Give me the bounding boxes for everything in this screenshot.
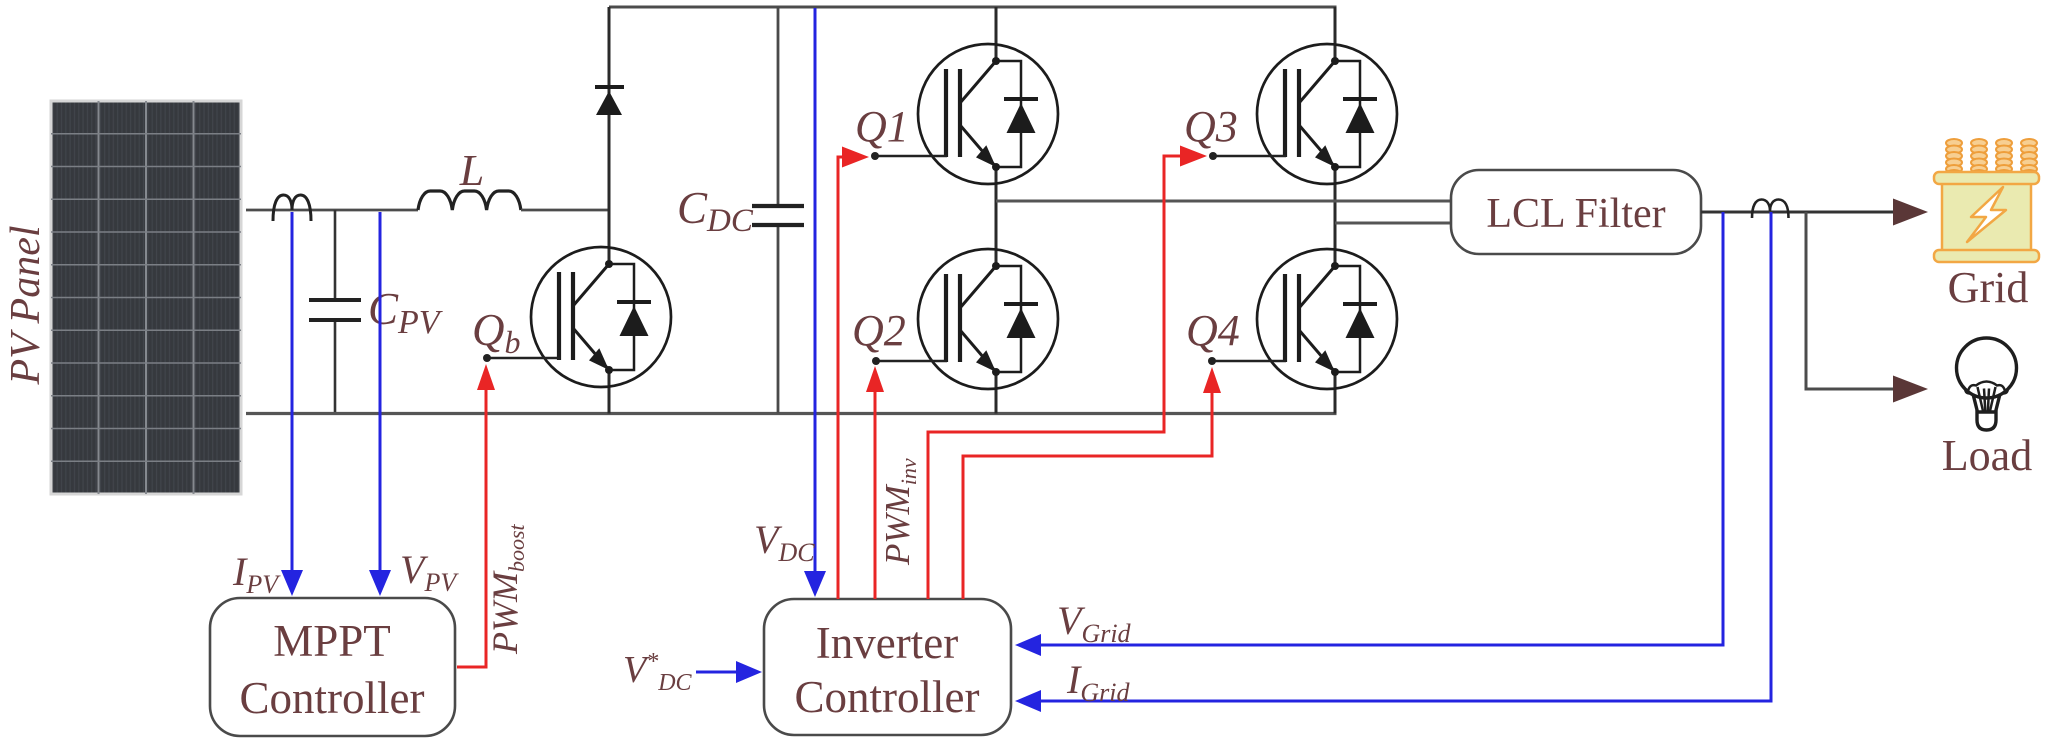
svg-text:MPPT: MPPT: [273, 616, 391, 666]
inductor L: [418, 191, 521, 210]
red gate wire Q2: [874, 390, 877, 599]
H-bridge right leg: [1334, 7, 1337, 61]
svg-text:Inverter: Inverter: [816, 618, 958, 668]
svg-text:Q3: Q3: [1184, 102, 1238, 151]
capacitor C_PV: [309, 210, 361, 413]
wire inductor to boost node: [521, 209, 611, 212]
red PWM_boost wire: [457, 380, 486, 667]
svg-text:Q2: Q2: [852, 306, 906, 355]
red gate wire Q4: [963, 392, 1212, 599]
blue sense I_PV: [291, 212, 294, 572]
gate lead Q2: [876, 360, 947, 363]
blue sense V_DC: [814, 8, 817, 573]
IGBT Qb: [531, 247, 671, 387]
svg-text:LCL Filter: LCL Filter: [1486, 191, 1665, 237]
red gate wire Q1: [838, 157, 844, 599]
wire PV+ to inductor: [246, 209, 418, 212]
arrow to grid: [1893, 199, 1928, 226]
blue sense V_PV: [379, 212, 382, 572]
current sensor CT1 on PV+: [273, 195, 311, 221]
inverter controller box: [764, 599, 1011, 735]
svg-text:Controller: Controller: [240, 673, 425, 723]
boost diode D1: [595, 7, 624, 210]
svg-text:Q4: Q4: [1186, 306, 1240, 355]
bottom rail: [246, 412, 1337, 415]
IGBT Q3: [1257, 44, 1397, 184]
svg-text:Grid: Grid: [1948, 263, 2029, 312]
current sensor CT2 on grid wire: [1752, 200, 1789, 219]
top rail DC+: [609, 6, 1337, 9]
wire branch to load: [1806, 212, 1896, 389]
PV panel: [51, 101, 241, 494]
IGBT Q2: [918, 249, 1058, 389]
H-bridge left leg: [995, 7, 998, 61]
IGBT Q1: [918, 44, 1058, 184]
svg-text:L: L: [459, 146, 484, 195]
load icon (bulb): [1957, 338, 2017, 430]
MPPT controller box: [210, 598, 455, 736]
IGBT Q4: [1257, 249, 1397, 389]
LCL Filter box: [1451, 170, 1701, 254]
blue ref V*_DC: [696, 671, 740, 674]
gate lead Q3: [1213, 155, 1286, 158]
wire LCL to grid: [1701, 211, 1896, 214]
svg-text:PV Panel: PV Panel: [3, 225, 49, 385]
svg-text:Controller: Controller: [795, 672, 980, 722]
grid icon (transformer): [1934, 139, 2039, 262]
capacitor C_DC: [752, 7, 804, 414]
wire node to Qb collector: [608, 210, 611, 264]
arrow to load: [1893, 376, 1928, 403]
svg-text:Load: Load: [1942, 431, 2032, 480]
wire bridge midpoint A to LCL: [996, 200, 1452, 203]
wire Qb emitter to bottom rail: [608, 370, 611, 414]
blue sense V_Grid: [1041, 212, 1723, 645]
red gate wire Q3: [928, 156, 1181, 599]
svg-text:Q1: Q1: [855, 102, 909, 151]
gate lead Q1: [875, 155, 947, 158]
gate lead Qb: [487, 357, 560, 360]
blue sense I_Grid: [1041, 212, 1771, 701]
gate lead Q4: [1212, 360, 1286, 363]
wire bridge midpoint B to LCL: [1335, 222, 1452, 225]
